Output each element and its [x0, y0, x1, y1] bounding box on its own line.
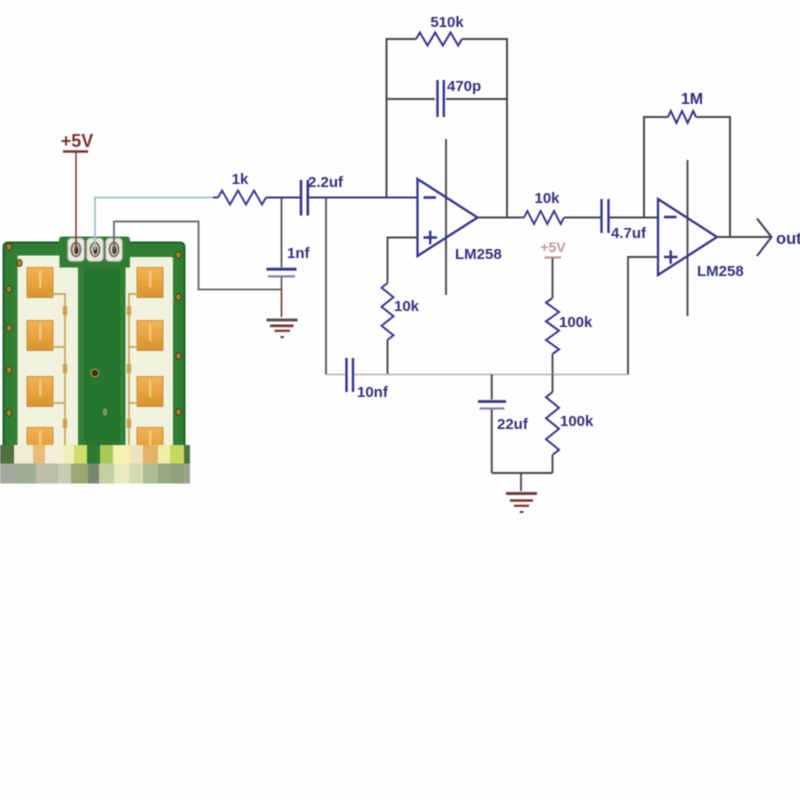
PCB feed trace left	[49, 294, 65, 460]
svg-text:+5V: +5V	[540, 239, 566, 255]
resistor 1M	[668, 111, 696, 123]
PCB terminal pin 3	[106, 238, 123, 262]
PCB patch antenna pad L3	[27, 377, 53, 407]
op-amp2 power pins	[687, 160, 689, 316]
PCB patch antenna pad R2	[137, 321, 163, 351]
wire node to 10nf rail	[325, 198, 327, 375]
svg-text:1k: 1k	[232, 171, 249, 188]
ground main	[520, 473, 522, 491]
PCB patch antenna pad L1	[27, 268, 53, 298]
wire 22uf/100k to ground	[492, 472, 553, 474]
svg-text:22uf: 22uf	[497, 416, 529, 433]
PCB vias	[91, 369, 98, 376]
output arrow	[757, 219, 772, 257]
svg-text:LM258: LM258	[697, 263, 744, 280]
capacitor 470p	[436, 80, 438, 117]
wire 4.7uf to op-amp2	[609, 217, 659, 219]
resistor 100k upper	[546, 298, 559, 354]
resistor 510k	[416, 33, 462, 46]
sensor module PCB board	[4, 243, 185, 483]
PCB patch antenna pad L4	[27, 428, 53, 458]
resistor 10k horizontal	[524, 211, 564, 224]
svg-text:10k: 10k	[394, 298, 420, 315]
capacitor 10nf	[345, 358, 347, 392]
op-amp1 power pins	[445, 139, 447, 295]
svg-text:4.7uf: 4.7uf	[611, 225, 647, 242]
svg-text:100k: 100k	[560, 413, 594, 430]
svg-text:470p: 470p	[447, 78, 481, 95]
wire +5V to pin1	[75, 153, 77, 251]
svg-text:10nf: 10nf	[357, 384, 389, 401]
ground under 1nf	[267, 319, 298, 322]
wire op-amp1 output	[478, 217, 525, 219]
watermark mosaic	[0, 445, 14, 464]
PCB patch antenna pad L2	[27, 321, 53, 351]
PCB mounting holes	[6, 244, 11, 251]
op-amp U1 LM258	[418, 179, 478, 256]
feedback loop wires op-amp2	[644, 117, 668, 218]
PCB terminal pin 2	[87, 238, 104, 262]
PCB terminal pin 1	[68, 238, 85, 262]
PCB patch antenna pad R4	[137, 428, 163, 458]
resistor 1k	[213, 197, 218, 199]
wire 2.2uf to op-amp1 inverting input	[308, 197, 418, 199]
PCB patch antenna pad R3	[137, 377, 163, 407]
svg-text:10k: 10k	[534, 190, 560, 207]
svg-text:2.2uf: 2.2uf	[308, 174, 344, 191]
svg-text:LM258: LM258	[455, 246, 502, 263]
wire low-pass rail	[326, 374, 345, 376]
wire op-amp2 output	[717, 236, 771, 238]
resistor 10k vertical	[382, 283, 394, 340]
resistor 100k lower	[552, 375, 554, 393]
op-amp U2 LM258	[658, 199, 717, 275]
svg-text:510k: 510k	[430, 14, 464, 31]
svg-text:100k: 100k	[559, 314, 593, 331]
wire pin3 to 1nf/ground node	[114, 222, 282, 290]
svg-text:1M: 1M	[681, 91, 703, 108]
PCB patch antenna pad R1	[137, 268, 163, 298]
wire pin2 to 1k (signal)	[95, 198, 214, 251]
capacitor 4.7uf	[600, 199, 602, 233]
svg-text:+5V: +5V	[61, 131, 94, 151]
capacitor 22uf	[491, 375, 493, 400]
svg-text:out: out	[776, 230, 800, 248]
wire op-amp1 noninverting input	[388, 238, 418, 284]
capacitor 2.2uf	[300, 180, 303, 216]
svg-text:1nf: 1nf	[287, 245, 311, 262]
PCB left antenna panel	[18, 256, 79, 462]
feedback loop wires op-amp1	[387, 39, 417, 198]
wire op-amp2 noninverting input	[628, 257, 658, 375]
PCB feed trace right	[129, 294, 141, 460]
capacitor 1nf	[281, 198, 283, 268]
PCB right antenna panel	[126, 257, 174, 461]
PCB center column	[84, 252, 120, 464]
